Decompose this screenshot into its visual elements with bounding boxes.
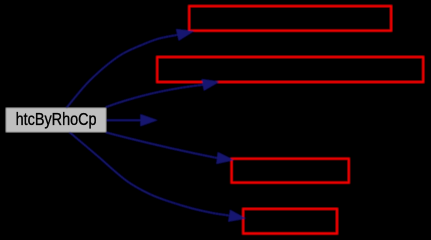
node box4 (red, truncated callee) xyxy=(243,209,337,234)
node box3 (red, truncated callee) xyxy=(232,159,349,183)
node htcByRhoCp (current node, grey) xyxy=(6,108,106,132)
edge htcByRhoCp -> middle (truncated node) xyxy=(106,115,156,125)
edge htcByRhoCp -> box4 xyxy=(70,132,245,221)
edge htcByRhoCp -> box1 xyxy=(66,30,192,108)
edge htcByRhoCp -> box3 xyxy=(106,132,233,163)
edge htcByRhoCp -> box2 xyxy=(106,80,218,108)
node box1 (red, truncated callee) xyxy=(189,6,391,31)
svg-text:htcByRhoCp: htcByRhoCp xyxy=(16,109,97,129)
node box2 (red, truncated callee) xyxy=(157,57,423,82)
